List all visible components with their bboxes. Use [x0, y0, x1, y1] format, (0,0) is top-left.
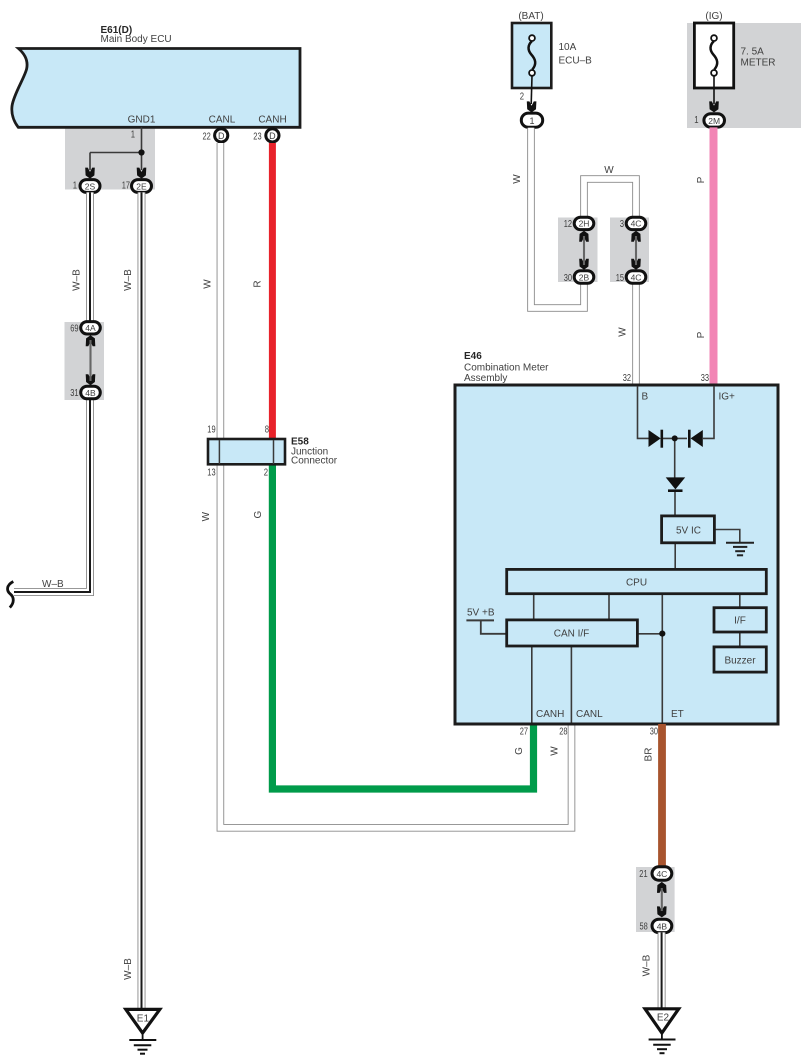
svg-text:Combination Meter: Combination Meter — [464, 362, 549, 373]
svg-text:2H: 2H — [579, 219, 590, 229]
svg-text:31: 31 — [70, 388, 79, 399]
svg-text:CANL: CANL — [576, 709, 603, 720]
svg-text:G: G — [253, 510, 264, 518]
svg-text:30: 30 — [650, 726, 659, 737]
svg-text:CAN I/F: CAN I/F — [554, 629, 590, 640]
svg-text:W: W — [604, 165, 614, 176]
svg-text:P: P — [696, 331, 707, 338]
svg-text:D: D — [218, 131, 225, 141]
svg-text:58: 58 — [640, 921, 649, 932]
svg-text:4C: 4C — [656, 869, 667, 879]
svg-text:33: 33 — [701, 373, 710, 384]
svg-text:B: B — [642, 392, 649, 403]
svg-text:2M: 2M — [708, 116, 720, 126]
svg-text:30: 30 — [564, 273, 573, 284]
svg-text:1: 1 — [131, 129, 136, 140]
svg-text:W–B: W–B — [123, 269, 134, 291]
svg-text:22: 22 — [203, 131, 212, 142]
svg-text:W: W — [203, 279, 214, 289]
svg-text:E46: E46 — [464, 351, 482, 362]
svg-text:E2: E2 — [657, 1013, 670, 1024]
svg-text:2: 2 — [520, 91, 525, 102]
svg-text:ET: ET — [671, 709, 684, 720]
svg-text:23: 23 — [253, 131, 262, 142]
svg-text:Connector: Connector — [291, 456, 338, 467]
svg-text:69: 69 — [70, 324, 79, 335]
svg-text:E1: E1 — [137, 1014, 150, 1025]
svg-text:BR: BR — [644, 748, 655, 762]
svg-text:2E: 2E — [136, 181, 147, 191]
svg-text:8: 8 — [265, 425, 270, 436]
svg-text:G: G — [514, 747, 525, 755]
svg-text:4C: 4C — [631, 219, 642, 229]
svg-text:METER: METER — [741, 58, 776, 69]
svg-text:IG+: IG+ — [719, 392, 736, 403]
svg-text:W: W — [550, 746, 561, 756]
svg-text:CANH: CANH — [258, 115, 286, 126]
svg-text:4A: 4A — [85, 323, 96, 333]
svg-text:Main Body ECU: Main Body ECU — [101, 34, 172, 45]
svg-text:2S: 2S — [85, 181, 96, 191]
svg-text:19: 19 — [207, 425, 216, 436]
svg-text:1: 1 — [694, 115, 699, 126]
svg-text:15: 15 — [616, 273, 625, 284]
svg-text:W–B: W–B — [42, 579, 64, 590]
svg-text:28: 28 — [559, 726, 568, 737]
svg-text:CANL: CANL — [209, 115, 236, 126]
svg-text:27: 27 — [520, 726, 529, 737]
svg-text:CANH: CANH — [536, 709, 564, 720]
svg-text:W: W — [201, 511, 212, 521]
svg-text:4B: 4B — [85, 388, 96, 398]
svg-text:12: 12 — [564, 219, 573, 230]
svg-text:W–B: W–B — [123, 958, 134, 980]
svg-text:1: 1 — [73, 181, 78, 192]
svg-text:2B: 2B — [579, 272, 590, 282]
svg-text:1: 1 — [529, 116, 534, 126]
svg-text:32: 32 — [623, 373, 632, 384]
svg-text:17: 17 — [122, 181, 131, 192]
svg-text:ECU–B: ECU–B — [559, 56, 593, 67]
svg-text:13: 13 — [207, 468, 216, 479]
svg-text:5V +B: 5V +B — [467, 607, 495, 618]
svg-text:CPU: CPU — [626, 577, 647, 588]
svg-text:(IG): (IG) — [705, 11, 722, 22]
svg-text:W–B: W–B — [642, 954, 653, 976]
svg-text:2: 2 — [264, 468, 269, 479]
svg-text:4C: 4C — [631, 272, 642, 282]
svg-text:(BAT): (BAT) — [518, 11, 543, 22]
svg-text:D: D — [269, 131, 276, 141]
svg-text:GND1: GND1 — [128, 115, 156, 126]
svg-text:W: W — [512, 174, 523, 184]
svg-text:10A: 10A — [559, 42, 577, 53]
svg-text:W: W — [618, 327, 629, 337]
svg-text:3: 3 — [620, 219, 625, 230]
svg-text:P: P — [696, 176, 707, 183]
svg-text:7. 5A: 7. 5A — [741, 46, 765, 57]
svg-text:21: 21 — [639, 869, 648, 880]
svg-text:5V IC: 5V IC — [676, 525, 701, 536]
svg-text:I/F: I/F — [734, 616, 746, 627]
svg-text:R: R — [253, 280, 264, 287]
svg-text:Buzzer: Buzzer — [724, 655, 756, 666]
svg-text:4B: 4B — [657, 921, 668, 931]
svg-text:Assembly: Assembly — [464, 373, 507, 384]
svg-text:W–B: W–B — [72, 269, 83, 291]
